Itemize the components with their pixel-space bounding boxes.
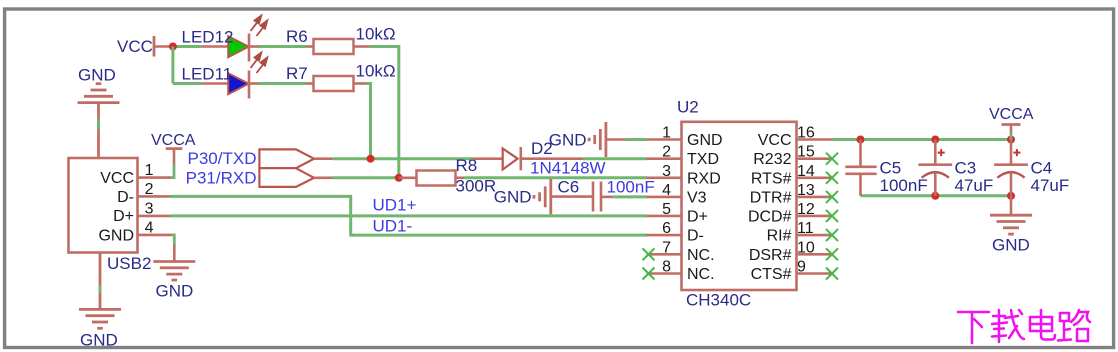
svg-text:CTS#: CTS#	[751, 266, 792, 283]
char 载	[992, 310, 1024, 342]
wire (C6 to U2 pin4)	[601, 196, 612, 199]
svg-text:1: 1	[145, 162, 154, 179]
junction dots bottom rail	[931, 192, 939, 200]
capacitor C6	[551, 195, 593, 198]
svg-text:D+: D+	[113, 208, 134, 225]
wire (R6 right, down to RXD row)	[354, 45, 370, 48]
svg-text:NC.: NC.	[687, 247, 715, 264]
LED LED12 (green)	[228, 36, 248, 57]
svg-text:R6: R6	[286, 27, 308, 46]
svg-text:12: 12	[797, 201, 815, 218]
svg-text:13: 13	[797, 182, 815, 199]
wire (R7 right, down to TXD row)	[354, 82, 367, 85]
svg-text:2: 2	[145, 181, 154, 198]
wire (USB box bottom to lower GND)	[99, 253, 102, 310]
svg-text:2: 2	[662, 144, 671, 161]
svg-text:14: 14	[797, 163, 815, 180]
svg-text:UD1-: UD1-	[373, 217, 413, 236]
svg-text:GND: GND	[992, 236, 1030, 255]
char 路	[1058, 310, 1090, 341]
port P30/TXD	[259, 149, 314, 168]
svg-text:1N4148W: 1N4148W	[530, 159, 606, 178]
wire (junction down to LED11 row)	[171, 47, 174, 84]
wire bottom rail	[861, 194, 1012, 197]
no-connect X marks (U2 pins 15-9 right)	[826, 153, 838, 280]
svg-text:300R: 300R	[456, 177, 497, 196]
svg-text:47uF: 47uF	[1031, 176, 1070, 195]
capacitor C5	[859, 140, 862, 167]
svg-text:UD1+: UD1+	[373, 196, 417, 215]
svg-text:16: 16	[797, 125, 815, 142]
svg-text:C4: C4	[1031, 159, 1053, 178]
U2 right pin numbers	[797, 125, 815, 276]
resistor R7	[314, 76, 354, 91]
U2 right pin names	[748, 132, 792, 283]
svg-text:TXD: TXD	[687, 151, 719, 168]
svg-text:RI#: RI#	[767, 228, 792, 245]
svg-text:VCCA: VCCA	[989, 106, 1034, 123]
svg-text:VCCA: VCCA	[151, 132, 196, 149]
diode D2	[473, 157, 503, 160]
wire RXD row	[314, 177, 332, 180]
svg-text:GND: GND	[549, 131, 587, 150]
svg-text:C6: C6	[558, 178, 580, 197]
svg-text:11: 11	[797, 220, 814, 237]
svg-text:DTR#: DTR#	[750, 189, 792, 206]
svg-text:VCC: VCC	[100, 170, 134, 187]
power VCCA (left) bar symbol	[166, 147, 183, 150]
svg-text:LED11: LED11	[182, 65, 233, 84]
svg-text:GND: GND	[494, 188, 532, 207]
svg-text:GND: GND	[687, 132, 723, 149]
U2 left pin names	[687, 132, 723, 283]
annotation 下载电路 (hand-drawn strokes)	[958, 310, 1090, 343]
svg-text:4: 4	[662, 182, 671, 199]
wire (USB GND pin4 elbow down)	[172, 235, 174, 246]
LED LED11 (blue)	[228, 73, 248, 94]
ground (GND flag at C6, sideways)	[534, 179, 551, 214]
svg-text:DSR#: DSR#	[749, 247, 792, 264]
wire (VCC to junction)	[154, 45, 173, 48]
ground (bottom-left GND)	[79, 309, 121, 328]
svg-text:VCC: VCC	[117, 37, 153, 56]
svg-text:GND: GND	[156, 282, 194, 301]
wire (C4 bottom to GND)	[1010, 196, 1013, 215]
wire TXD row	[314, 157, 332, 160]
connector USB2 body	[69, 158, 138, 253]
U2 left pin stubs 1-8	[647, 140, 682, 274]
svg-text:GND: GND	[80, 331, 118, 350]
svg-text:5: 5	[662, 201, 671, 218]
svg-text:1: 1	[662, 125, 671, 142]
svg-text:C5: C5	[880, 159, 902, 178]
svg-text:V3: V3	[687, 189, 707, 206]
junction (VCC split)	[169, 43, 177, 51]
pin 4 (USB GND) stub	[138, 234, 173, 237]
pin 2 (USB D-) stub	[138, 195, 171, 198]
svg-text:P31/RXD: P31/RXD	[186, 168, 257, 187]
svg-text:D-: D-	[117, 189, 134, 206]
wire top rail (pin16 to VCCA)	[832, 138, 1011, 141]
connector USB2 pin names	[98, 170, 134, 245]
svg-text:USB2: USB2	[107, 254, 151, 273]
svg-text:DCD#: DCD#	[748, 208, 792, 225]
port P31/RXD	[259, 168, 314, 187]
capacitor C4 (polarized)	[1010, 140, 1013, 165]
svg-text:47uF: 47uF	[955, 176, 994, 195]
svg-text:RTS#: RTS#	[751, 170, 792, 187]
svg-text:RXD: RXD	[687, 170, 721, 187]
svg-text:7: 7	[662, 239, 671, 256]
svg-text:GND: GND	[98, 228, 134, 245]
svg-text:9: 9	[797, 259, 806, 276]
svg-text:3: 3	[662, 163, 671, 180]
char 电	[1030, 310, 1055, 340]
svg-text:C3: C3	[955, 159, 977, 178]
wire (junction to LED12 anode)	[173, 45, 202, 48]
wire (GND flag to U2 pin1)	[606, 138, 625, 141]
svg-text:NC.: NC.	[687, 266, 715, 283]
svg-text:GND: GND	[78, 66, 116, 85]
junction (TXD / R7)	[367, 155, 375, 163]
svg-text:4: 4	[145, 219, 154, 236]
wire (LED12 cathode to R6)	[249, 45, 259, 48]
svg-text:8: 8	[662, 259, 671, 276]
no-connect X marks (U2 pins 7,8 left)	[643, 248, 655, 279]
wire (pin1 elbow to VCCA)	[171, 164, 174, 178]
svg-text:15: 15	[797, 144, 815, 161]
resistor R8	[399, 177, 417, 180]
ground (top-left GND, inverted stack)	[78, 84, 120, 103]
resistor R6	[314, 39, 354, 54]
svg-text:10kΩ: 10kΩ	[356, 25, 396, 44]
svg-text:100nF: 100nF	[607, 178, 655, 197]
svg-text:P30/TXD: P30/TXD	[188, 149, 257, 168]
wire (R8 to U2 RXD pin3)	[456, 177, 465, 180]
svg-text:R232: R232	[753, 151, 791, 168]
svg-text:100nF: 100nF	[880, 176, 928, 195]
svg-text:CH340C: CH340C	[686, 291, 751, 310]
ground (USB pin4 GND)	[153, 262, 195, 281]
pin 1 (USB VCC) stub	[138, 176, 172, 179]
svg-text:LED12: LED12	[182, 28, 234, 47]
char 下	[958, 312, 989, 343]
svg-text:R7: R7	[286, 64, 308, 83]
U2 right pin stubs 16-9	[797, 140, 833, 274]
ground (GND flag at U2 pin1, sideways)	[589, 122, 606, 157]
svg-text:10: 10	[797, 239, 815, 256]
svg-text:3: 3	[145, 200, 154, 217]
U2 left pin numbers	[662, 125, 671, 276]
svg-text:10kΩ: 10kΩ	[356, 62, 396, 81]
IC U2 body	[682, 122, 797, 290]
svg-text:D+: D+	[687, 208, 708, 225]
capacitor C3 (polarized)	[934, 140, 937, 165]
junction dots top rail	[857, 136, 865, 144]
pin 3 (USB D+) stub	[138, 215, 171, 218]
svg-text:D-: D-	[687, 228, 704, 245]
svg-text:VCC: VCC	[758, 132, 792, 149]
wire (LED11 cathode to R7)	[249, 82, 259, 85]
wire UD1- (USB D- to U2 pin6)	[170, 196, 647, 235]
svg-text:U2: U2	[677, 98, 699, 117]
power VCCA (right)	[1002, 123, 1021, 126]
ground (right GND below C4)	[990, 215, 1032, 234]
wire UD1+ (USB D+ to U2 pin5)	[170, 214, 647, 217]
junction (RXD / R6)	[395, 174, 403, 182]
svg-text:6: 6	[662, 220, 671, 237]
wire (GND stem to USB box top)	[97, 103, 100, 158]
power VCC bar symbol	[153, 36, 156, 57]
